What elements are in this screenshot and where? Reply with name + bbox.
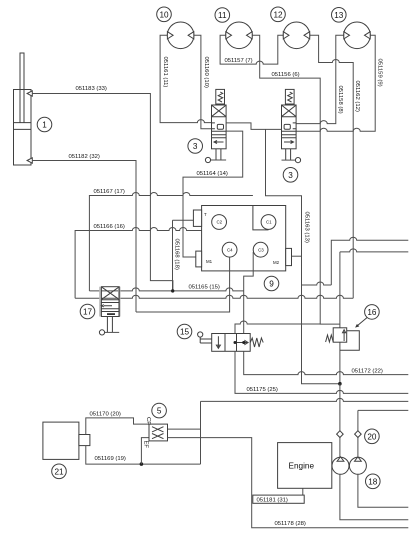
wire M1 port line (183, 220, 196, 257)
svg-text:051169 (19): 051169 (19) (95, 456, 126, 462)
svg-text:3: 3 (288, 171, 293, 180)
balloon 15 (177, 324, 192, 339)
cylinder 1 port arrow upper (27, 91, 32, 96)
svg-text:M2: M2 (273, 260, 280, 265)
svg-text:051168 (18): 051168 (18) (174, 239, 180, 270)
svg-text:051163 (13): 051163 (13) (303, 212, 309, 243)
svg-text:C4: C4 (227, 247, 233, 252)
balloon 10 (157, 7, 172, 22)
balloon 13 (332, 8, 347, 23)
svg-text:051182 (32): 051182 (32) (69, 154, 100, 160)
valve 3a body (212, 105, 227, 149)
svg-text:20: 20 (367, 432, 377, 441)
valve 17 side bars (99, 287, 101, 317)
tank bus line (75, 295, 353, 298)
svg-text:051178 (28): 051178 (28) (275, 521, 306, 527)
manifold cartridge C4 (222, 242, 237, 257)
valve 17 body (101, 287, 119, 317)
manifold T tab (193, 210, 201, 226)
svg-text:16: 16 (367, 308, 377, 317)
wire pump2 top line (358, 410, 408, 431)
wire 051159 (9) motor13 right to valve3b lower right port (296, 35, 375, 131)
wire CF priority line (168, 398, 409, 464)
wire 051183 (33) cylinder to junction dot (32, 94, 173, 291)
svg-text:18: 18 (368, 477, 378, 486)
svg-text:051166 (16): 051166 (16) (94, 224, 125, 230)
valve 15 pilot port lines (200, 337, 212, 343)
wire 051167 (17) to manifold top entry (89, 193, 253, 291)
wire 051164 (14) valve3a right port down to T line (183, 131, 243, 220)
balloon 12 (271, 7, 286, 22)
wire 051166 (16) to manifold left edge (75, 228, 202, 299)
wire 051169 (19) (86, 446, 201, 465)
svg-text:EF: EF (142, 441, 148, 449)
engine box (278, 443, 332, 489)
svg-text:C1: C1 (266, 220, 272, 225)
wire M2 tab to 051163 vertical (292, 255, 302, 257)
wire C3 line down into valve 15 (244, 252, 254, 343)
wire right stub at 239.8 from V1 (331, 237, 408, 285)
wire pump2 bottom out (358, 474, 408, 507)
wire right stub at 251.4 (340, 249, 408, 252)
wire pump1 bottom out (340, 474, 408, 520)
valve 15 body (212, 334, 251, 352)
svg-text:21: 21 (54, 467, 64, 476)
valve 15 spring (250, 338, 263, 347)
svg-text:CF: CF (145, 417, 151, 425)
wire 051168 (18) down to junction dot (172, 220, 174, 291)
valve 3a bottom stems (216, 149, 221, 160)
wire 051157 (7) motor11 left to motor12 left (220, 35, 283, 64)
valve 17 bottom stems (107, 317, 112, 333)
balloon 1 (37, 117, 52, 132)
manifold M2 tab (286, 248, 292, 265)
cylinder 1 rod (20, 53, 24, 123)
svg-text:9: 9 (269, 280, 274, 289)
svg-text:12: 12 (273, 10, 283, 19)
svg-text:051175 (25): 051175 (25) (247, 387, 278, 393)
motor 13 (344, 22, 371, 49)
manifold cartridge C1 (261, 215, 276, 230)
svg-text:1: 1 (42, 121, 47, 130)
wire H1 cross link (302, 282, 332, 285)
wire EF to dot (141, 438, 149, 465)
pump 2 (349, 457, 366, 474)
svg-text:T: T (204, 212, 207, 217)
wire motor10 right to valve3a lower left port (194, 35, 212, 128)
balloon 21 (52, 464, 67, 479)
svg-text:051164 (14): 051164 (14) (197, 171, 228, 177)
valve 3b pilot circle (295, 158, 300, 163)
svg-text:051159 (9): 051159 (9) (376, 59, 382, 87)
relief valve 16 body (333, 328, 347, 342)
svg-text:051181 (31): 051181 (31) (257, 498, 288, 504)
wire 051156 (6) motor11 right down long vertical to relief area (252, 35, 340, 324)
wire 051182 (32) cylinder down left column (32, 161, 136, 313)
svg-text:051165 (15): 051165 (15) (189, 285, 220, 291)
valve 3a drain line (211, 159, 227, 161)
manifold internal line to C1 (253, 206, 269, 230)
balloon 18 (366, 474, 381, 489)
relief valve 16 spring (326, 335, 334, 342)
svg-text:3: 3 (193, 142, 198, 151)
svg-text:051157 (7): 051157 (7) (225, 58, 253, 64)
wire 051165 (15) through valve 17 (89, 288, 243, 291)
motor 10 (167, 22, 194, 49)
junction dot EF (140, 462, 144, 466)
wire pump2 riser lower (357, 437, 359, 457)
valve 3b bottom stems (286, 149, 291, 160)
svg-text:051170 (20): 051170 (20) (90, 412, 121, 418)
balloon 11 (215, 8, 230, 23)
svg-text:C2: C2 (217, 220, 223, 225)
svg-text:051158 (8): 051158 (8) (337, 86, 343, 114)
valve 3b drain line (282, 159, 296, 161)
wire T port line (173, 219, 194, 221)
svg-text:051162 (12): 051162 (12) (354, 81, 360, 112)
balloon 3a (188, 139, 203, 154)
motor 12 (283, 22, 310, 49)
svg-text:C3: C3 (258, 247, 264, 252)
check diamond pump2 (355, 431, 362, 438)
manifold cartridge C3 (253, 242, 268, 257)
relief valve 16 vertical line (339, 252, 341, 384)
svg-text:051161 (11): 051161 (11) (162, 57, 168, 88)
svg-text:17: 17 (83, 308, 93, 317)
svg-text:13: 13 (334, 11, 344, 20)
balloon 5 (152, 403, 167, 418)
balloon 3b (283, 168, 298, 183)
balloon 9 (264, 276, 279, 291)
valve 3b body (282, 105, 297, 149)
wire valve3a right to valve3b left with jog (226, 123, 281, 129)
svg-text:10: 10 (159, 10, 169, 19)
svg-text:051156 (6): 051156 (6) (272, 72, 300, 78)
wire motor10 left to valve3a left port (160, 35, 211, 122)
wire 051163 (13) branch down to manifold M2 and on to pump junction (266, 129, 340, 383)
valve 3a pilot box (216, 89, 225, 104)
valve 15 internal junction dots (234, 341, 237, 344)
svg-text:M1: M1 (206, 259, 213, 264)
wire EF out to 051178 (168, 438, 409, 528)
cylinder 1 body (14, 90, 32, 166)
svg-text:051167 (17): 051167 (17) (94, 189, 125, 195)
manifold M1 tab (196, 251, 202, 267)
wire 051172 (22) (244, 351, 409, 374)
wire 051170 (20) (86, 418, 149, 435)
pump 1 (332, 457, 349, 474)
manifold cartridge C2 (212, 215, 227, 230)
tank 21 box (43, 422, 79, 459)
balloon 16 with leader (365, 305, 380, 320)
engine lead wire (302, 488, 304, 495)
svg-text:15: 15 (180, 328, 190, 337)
svg-text:11: 11 (218, 11, 227, 20)
check diamond pump1 (337, 431, 344, 438)
svg-text:051183 (33): 051183 (33) (76, 86, 107, 92)
balloon 20 (365, 429, 380, 444)
valve 17 pilot circle (99, 330, 104, 335)
svg-text:5: 5 (157, 407, 162, 416)
svg-text:051172 (22): 051172 (22) (352, 369, 383, 375)
valve 3a pilot circle (205, 157, 210, 162)
svg-text:Engine: Engine (289, 462, 315, 471)
balloon 17 (80, 304, 95, 319)
wire 051175 (25) (235, 351, 408, 393)
cylinder 1 port arrow lower (27, 158, 32, 163)
wire valve15 top left to relief junction (235, 321, 320, 343)
svg-text:051160 (10): 051160 (10) (203, 57, 209, 88)
wire 051162 (12) motor12 right down to bus corner (310, 35, 353, 298)
tank 21 tab (79, 435, 90, 446)
junction dot 051168/051183 on 051165 (171, 289, 174, 292)
junction dot pump column (338, 382, 342, 386)
motor 11 (226, 22, 253, 49)
valve 3b pilot box (285, 89, 294, 104)
cylinder 1 piston (14, 123, 32, 130)
flow divider 5 box (149, 424, 168, 441)
label box 051181 (31) (253, 495, 304, 503)
wire C4 line down and left to 051182 column (136, 257, 230, 312)
valve 17 drain line (105, 331, 120, 333)
wire 051158 (8) motor13 left to valve3b upper right port (296, 35, 344, 123)
manifold 9 block (202, 206, 286, 271)
wire pump1 riser (339, 384, 341, 458)
relief valve 16 pilot box (340, 331, 359, 350)
valve 15 pilot circle (198, 332, 203, 337)
